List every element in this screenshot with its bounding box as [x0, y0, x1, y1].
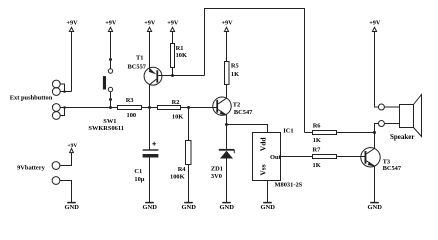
ground GND battery: [64, 203, 79, 212]
svg-text:3V0: 3V0: [211, 173, 222, 180]
pushbutton SW1: [103, 58, 113, 108]
svg-text:T1: T1: [136, 55, 143, 62]
transistor T1 BC557: [144, 67, 162, 85]
svg-text:T2: T2: [233, 101, 240, 108]
power +9V P1: [66, 20, 78, 92]
power +9V P4: [167, 20, 179, 44]
resistor R6: [313, 131, 337, 135]
svg-text:1K: 1K: [313, 162, 321, 169]
zener ZD1: [219, 125, 235, 203]
power +9V P5: [221, 20, 233, 62]
svg-text:SWKRS0611: SWKRS0611: [88, 125, 124, 132]
svg-text:GND: GND: [181, 204, 196, 211]
svg-text:R6: R6: [313, 122, 322, 129]
power +9V P3: [144, 20, 156, 70]
ground GND IC: [260, 203, 275, 212]
connector J2 to SW line: [52, 104, 65, 120]
wire R5 to T2 collector: [226, 85, 228, 99]
node junction main/R4: [187, 106, 190, 109]
svg-text:R5: R5: [231, 63, 239, 70]
svg-text:+9V: +9V: [66, 20, 78, 27]
node junction main/SW1: [109, 106, 112, 109]
transistor T3 BC547: [361, 148, 380, 167]
svg-text:R4: R4: [178, 166, 187, 173]
resistor R3: [118, 106, 142, 110]
svg-text:+9V: +9V: [105, 20, 117, 27]
IC U1 M8031: [253, 133, 282, 181]
svg-text:10K: 10K: [176, 52, 187, 59]
svg-text:GND: GND: [142, 204, 157, 211]
transistor T2 BC547: [213, 97, 231, 125]
wire Out/R7 row: [281, 156, 366, 158]
svg-text:Vdd: Vdd: [259, 137, 268, 152]
svg-text:100: 100: [127, 112, 137, 119]
wire junction up to speaker jack: [375, 124, 379, 133]
svg-text:GND: GND: [219, 204, 234, 211]
svg-text:GND: GND: [367, 204, 382, 211]
svg-text:BC547: BC547: [234, 109, 253, 116]
svg-text:10µ: 10µ: [134, 176, 144, 183]
svg-text:100K: 100K: [170, 173, 185, 180]
wire T3 emitter to GND: [374, 166, 376, 203]
wire R1 bottom lead: [172, 68, 174, 76]
ground GND ZD1: [219, 203, 234, 212]
wire T1 base row: [158, 75, 204, 77]
svg-text:SW1: SW1: [103, 118, 116, 125]
svg-text:R3: R3: [126, 97, 134, 104]
svg-text:+9V: +9V: [144, 20, 156, 27]
capacitor C1: [143, 142, 159, 203]
svg-text:Speaker: Speaker: [390, 133, 415, 141]
wire top rail: [205, 9, 305, 133]
svg-text:BC547: BC547: [383, 165, 402, 172]
svg-text:+9V: +9V: [167, 20, 179, 27]
svg-text:1K: 1K: [313, 137, 321, 144]
connector J3 battery: [52, 153, 71, 203]
svg-text:10K: 10K: [172, 114, 183, 121]
svg-text:9Vbattery: 9Vbattery: [17, 165, 45, 172]
svg-text:1K: 1K: [231, 71, 239, 78]
svg-text:+9V: +9V: [221, 20, 233, 27]
node junction main/T1: [148, 106, 151, 109]
connector speaker jack: [378, 104, 384, 127]
power +9V battery: [67, 143, 77, 152]
wire R6 row: [305, 132, 375, 134]
svg-text:+9V: +9V: [369, 20, 381, 27]
svg-text:Out: Out: [270, 154, 282, 161]
power +9V P2: [105, 20, 117, 58]
node junction T2 emitter: [225, 123, 228, 126]
wire main row: [60, 107, 217, 109]
ground GND C1: [142, 203, 157, 212]
resistor R4: [186, 108, 192, 203]
resistor R5: [225, 62, 230, 85]
wire emitter junction to IC: [227, 125, 268, 133]
svg-text:C1: C1: [134, 168, 142, 175]
ground GND R4: [181, 203, 196, 212]
svg-text:M8031-2S: M8031-2S: [275, 181, 303, 188]
resistor R2: [158, 106, 181, 110]
wire IC Vss to GND: [267, 181, 269, 203]
svg-text:IC1: IC1: [283, 127, 293, 134]
power +9V P6: [369, 20, 381, 107]
svg-text:Ext pushbutton: Ext pushbutton: [10, 94, 53, 101]
svg-text:R2: R2: [172, 99, 180, 106]
svg-text:GND: GND: [260, 204, 275, 211]
wire T1 collector to C1: [149, 85, 151, 150]
node junction R6/T3/speaker: [373, 131, 376, 134]
speaker LS1: [400, 95, 422, 137]
svg-text:ZD1: ZD1: [211, 165, 223, 172]
svg-text:Vss: Vss: [259, 164, 268, 175]
svg-text:R7: R7: [313, 147, 322, 154]
connector J1 Ext pushbutton: [52, 80, 71, 95]
svg-text:BC557: BC557: [128, 63, 147, 70]
node junction R1/base: [171, 74, 174, 77]
svg-text:GND: GND: [64, 204, 79, 211]
resistor R1: [171, 44, 175, 68]
ground GND T3: [367, 203, 382, 212]
svg-text:R1: R1: [176, 45, 184, 52]
resistor R7: [313, 155, 337, 159]
wire junction down to T3 collector: [374, 133, 376, 149]
wire jack to speaker: [384, 107, 399, 124]
svg-text:+9V: +9V: [67, 143, 77, 149]
